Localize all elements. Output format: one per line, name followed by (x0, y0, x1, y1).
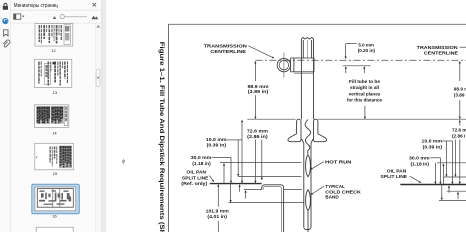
svg-text:(3.89 in): (3.89 in) (248, 89, 269, 94)
dimension 10.0 mm (right) (422, 139, 454, 185)
svg-text:CENTERLINE: CENTERLINE (210, 49, 246, 54)
svg-text:(2.86 in): (2.86 in) (247, 134, 268, 139)
tube handle ring (277, 53, 290, 78)
tube neck (302, 139, 313, 230)
dipstick tip line (right) (439, 199, 466, 201)
svg-text:vertical planes: vertical planes (349, 91, 381, 96)
svg-text:(4.01 in): (4.01 in) (207, 214, 227, 219)
leader from transmission label to ring (248, 46, 272, 57)
panel scrollbar track (96, 23, 101, 232)
svg-text:HOT RUN: HOT RUN (325, 159, 352, 164)
cold check band (oval) (306, 190, 311, 211)
auxiliary dimension line (261, 140, 263, 181)
svg-text:72.6 mm: 72.6 mm (247, 129, 268, 134)
svg-text:(3.89 i: (3.89 i (454, 92, 466, 97)
fill tube upper section (left drawing) (301, 38, 313, 120)
svg-text:30.0 mm: 30.0 mm (191, 155, 212, 160)
dimension 98.9 mm (right, clipped) (454, 61, 466, 119)
oil pan split line (right) (400, 184, 466, 186)
svg-text:BAND: BAND (325, 195, 339, 200)
transmission centerline label (right) (417, 45, 466, 56)
oil pan surface line (right) (447, 190, 466, 192)
svg-text:16: 16 (52, 213, 57, 218)
svg-text:(0.39 in): (0.39 in) (423, 144, 443, 149)
dimension 101.9 mm (206, 184, 229, 232)
small dimension split-to-tip (right) (441, 185, 443, 201)
dimension 72.6 mm (left) (247, 129, 268, 184)
handle block (291, 58, 314, 73)
up arrow to pan surface (right) (457, 192, 459, 200)
svg-text:98.9 mm: 98.9 mm (248, 84, 269, 89)
dimension 5.0 mm (343, 43, 376, 74)
svg-text:15: 15 (53, 171, 58, 176)
panel toolbar: options dropdown icon (14, 14, 25, 19)
svg-text:SPLIT LINE: SPLIT LINE (182, 175, 209, 180)
dimension 30.0 mm (left) (191, 155, 232, 183)
svg-text:for this distance: for this distance (347, 98, 382, 103)
bookmark icon (4, 30, 8, 36)
svg-text:10.0 mm: 10.0 mm (206, 137, 227, 142)
hot run band (oval) (306, 155, 311, 177)
svg-text:CENTERLINE: CENTERLINE (424, 51, 458, 56)
diagram border frame (169, 24, 466, 232)
dimension 30.0 mm (right) (409, 156, 444, 185)
svg-text:(0.20 in): (0.20 in) (358, 48, 376, 53)
svg-text:(2.86 i: (2.86 i (452, 133, 465, 138)
transmission centerline (dashed) (255, 59, 466, 61)
svg-text:(0.39 in): (0.39 in) (207, 143, 227, 148)
oil pan boss (262, 185, 284, 232)
panel/page splitter bar (102, 0, 106, 232)
extension line (30mm datum) (220, 162, 301, 164)
dipstick wavy section (305, 120, 310, 155)
typical cold check band label (311, 184, 362, 199)
svg-text:Figure 1–1. Fill Tube And Dip: Figure 1–1. Fill Tube And Dipstick Requi… (158, 42, 164, 232)
toolbar separator (11, 22, 102, 24)
scrollbar thumb (96, 69, 100, 86)
panel header separator (11, 9, 102, 11)
thumbnail page 16 selection highlight (32, 184, 80, 214)
small dimension: split to tip (230, 184, 232, 203)
svg-text:Миниатюры страниц: Миниатюры страниц (14, 3, 58, 9)
svg-text:13: 13 (53, 90, 58, 95)
svg-text:OIL PAN: OIL PAN (387, 168, 407, 173)
lock icon (3, 3, 8, 9)
thumbnails panel background (11, 0, 102, 232)
extension line (right 30mm datum) (437, 162, 466, 164)
svg-text:OIL PAN: OIL PAN (187, 170, 207, 175)
extension line (10mm datum) (238, 176, 301, 178)
thumbnail page 15 (35, 143, 74, 170)
dipstick tip line (229, 202, 304, 204)
svg-text:straight in all: straight in all (350, 85, 379, 90)
panel toolbar: slider (60, 15, 87, 19)
oil pan split line label (right) (381, 168, 422, 183)
svg-text:Fill tube to be: Fill tube to be (349, 79, 380, 84)
svg-text:5.0 mm: 5.0 mm (358, 43, 374, 48)
panel toolbar: small image icon (zoom out) (53, 16, 57, 19)
dimension 10.0 mm (left) (206, 120, 243, 184)
paperclip icon (3, 40, 10, 47)
svg-text:101.9 mm: 101.9 mm (206, 209, 229, 214)
auxiliary dimension line (right) (434, 163, 436, 185)
dimension 72.6 mm (right, clipped) (452, 120, 466, 185)
svg-text:TRANSMISSION: TRANSMISSION (417, 45, 459, 50)
svg-text:12: 12 (51, 48, 56, 53)
svg-text:-5-: -5- (121, 159, 126, 165)
up arrow to pan surface (245, 190, 247, 199)
thumbnail page 17 (bottom-clipped) (36, 227, 73, 235)
oil pan split line (210, 183, 262, 185)
scrollbar up arrow (97, 25, 100, 28)
thumbnail page 13 (35, 59, 72, 87)
svg-text:(1.18 in): (1.18 in) (192, 161, 211, 166)
left icon rail background (0, 0, 10, 232)
hot run label (310, 159, 352, 169)
panel toolbar: large image icon (zoom in) (91, 16, 98, 19)
document page (white) (106, 0, 466, 232)
extension line (right 10mm datum) (444, 176, 466, 178)
transmission centerline label (left) (204, 43, 248, 54)
svg-text:14: 14 (52, 131, 57, 136)
note: fill tube straightness (347, 66, 382, 119)
thumbnail page 12 (top-clipped) (35, 24, 73, 47)
page thumbnails icon (active, blue) (2, 18, 8, 24)
svg-text:(Ref. only): (Ref. only) (181, 181, 207, 186)
svg-text:30.0 mm: 30.0 mm (409, 156, 430, 161)
oil pan split line label (181, 170, 214, 187)
svg-text:10.0 mm: 10.0 mm (422, 139, 443, 144)
up arrow below split (right) (448, 185, 450, 193)
svg-text:TRANSMISSION: TRANSMISSION (204, 43, 248, 48)
svg-text:SPLIT LINE: SPLIT LINE (381, 174, 408, 179)
svg-text:72.6 m: 72.6 m (452, 128, 466, 133)
dimension 98.9 mm (left) (248, 61, 269, 119)
straightness-region lower extension line (247, 118, 295, 120)
panel header: close X button (93, 3, 97, 7)
tube flare flanges (funnel) (288, 119, 327, 142)
up arrow below split line (239, 184, 241, 192)
dipstick wire (307, 211, 309, 232)
svg-text:98.9 m: 98.9 m (454, 87, 466, 92)
svg-text:(1.18 in): (1.18 in) (411, 161, 430, 166)
oil pan surface line (244, 189, 262, 191)
